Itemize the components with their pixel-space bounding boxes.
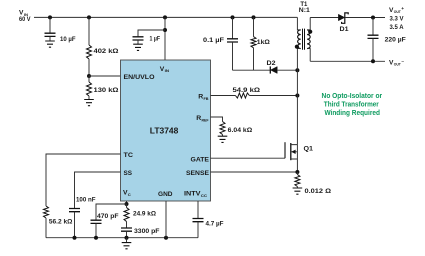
resistor 54.9k xyxy=(233,87,298,98)
svg-text:220 µF: 220 µF xyxy=(385,37,406,44)
wire switch node vertical xyxy=(296,70,298,144)
svg-text:EN/UVLO: EN/UVLO xyxy=(124,74,155,81)
svg-text:D2: D2 xyxy=(267,60,276,67)
ground below 130k xyxy=(84,100,94,106)
op-amp U1 LT3748 body xyxy=(121,60,211,201)
wire bottom rail xyxy=(46,237,198,239)
transformer T1 labels xyxy=(299,1,310,14)
svg-text:130 kΩ: 130 kΩ xyxy=(94,87,120,94)
junction 1uF tap xyxy=(163,28,167,32)
svg-text:FB: FB xyxy=(204,96,209,101)
capacitor 3300pF xyxy=(121,228,160,238)
junction switch node at D2 xyxy=(295,68,299,72)
transformer T1 secondary xyxy=(307,18,310,62)
pin VC label xyxy=(123,190,131,197)
pin Vin label xyxy=(160,66,169,73)
wire TC xyxy=(46,154,121,206)
junction output minus at C220uF xyxy=(371,59,375,63)
capacitor 4.7uF xyxy=(193,219,224,238)
wire RFB xyxy=(211,95,236,97)
junction rail 100nF xyxy=(73,236,77,240)
node Vout minus label xyxy=(389,59,404,66)
svg-text:SENSE: SENSE xyxy=(186,170,209,177)
pin INTVCC label xyxy=(184,190,207,197)
wire output minus rail xyxy=(310,60,385,62)
svg-text:1 µF: 1 µF xyxy=(150,36,161,43)
svg-text:GND: GND xyxy=(158,191,173,198)
svg-text:54.9 kΩ: 54.9 kΩ xyxy=(233,87,261,94)
capacitor 100nF xyxy=(69,197,96,238)
svg-text:TC: TC xyxy=(124,152,134,159)
svg-text:CC: CC xyxy=(201,193,207,198)
junction input rail at Vin pin xyxy=(163,15,167,19)
capacitor C 220uF xyxy=(368,18,406,62)
transformer T1 primary phase dot xyxy=(295,45,299,49)
diode D2 xyxy=(267,60,298,74)
svg-text:56.2 kΩ: 56.2 kΩ xyxy=(49,219,73,226)
ground below sense resistor xyxy=(293,188,303,194)
svg-text:+: + xyxy=(401,7,404,12)
wire INTVCC pin xyxy=(197,201,199,218)
wire input top rail xyxy=(34,16,297,18)
wire SS xyxy=(75,172,121,208)
svg-text:100 nF: 100 nF xyxy=(76,197,96,204)
svg-text:D1: D1 xyxy=(340,26,349,33)
diode D1 schottky xyxy=(338,13,348,33)
svg-text:4.7 µF: 4.7 µF xyxy=(206,221,224,228)
svg-text:C: C xyxy=(128,192,131,197)
resistor 24.9k xyxy=(124,204,157,228)
svg-text:Q1: Q1 xyxy=(304,146,314,153)
resistor 1k snubber xyxy=(251,17,271,70)
wire SENSE xyxy=(211,171,298,173)
transformer T1 secondary phase dot xyxy=(308,30,312,34)
svg-text:SS: SS xyxy=(124,170,133,177)
svg-text:No Opto-Isolator or: No Opto-Isolator or xyxy=(322,93,383,100)
capacitor 470pF xyxy=(91,204,127,238)
resistor 56.2k xyxy=(44,206,74,238)
note no opto-isolator text xyxy=(322,93,383,117)
svg-text:60 V: 60 V xyxy=(19,16,31,23)
svg-text:6.04 kΩ: 6.04 kΩ xyxy=(228,127,253,134)
junction output plus at C220uF xyxy=(371,16,375,20)
svg-text:REF: REF xyxy=(202,117,209,122)
pin RFB label xyxy=(198,94,208,101)
resistor 402k xyxy=(87,17,120,76)
svg-text:3.3 V: 3.3 V xyxy=(390,16,405,23)
svg-text:3.5 A: 3.5 A xyxy=(390,24,405,31)
junction rail 470pF xyxy=(94,236,98,240)
svg-text:OUT: OUT xyxy=(394,63,402,67)
wire D1 to Vout+ xyxy=(345,17,385,19)
junction sense node xyxy=(295,170,299,174)
svg-text:IN: IN xyxy=(165,68,170,73)
junction rail 3300pF xyxy=(125,236,129,240)
svg-text:24.9 kΩ: 24.9 kΩ xyxy=(133,211,157,218)
ground below 10uF xyxy=(45,41,55,47)
junction input rail at C-0.1uF xyxy=(231,15,235,19)
svg-text:–: – xyxy=(401,60,404,65)
resistor 6.04k xyxy=(220,122,253,137)
transformer T1 core xyxy=(303,29,305,50)
resistor 0.012 sense xyxy=(295,172,332,195)
svg-text:0.1 µF: 0.1 µF xyxy=(203,37,224,44)
junction switch node at RFB xyxy=(295,94,299,98)
ground bottom rail xyxy=(122,238,132,249)
wire VC drop xyxy=(126,201,128,204)
capacitor C 10uF xyxy=(45,17,76,42)
wire GND pin xyxy=(165,201,167,238)
svg-text:GATE: GATE xyxy=(191,157,210,164)
node Vin input label xyxy=(19,10,31,24)
svg-text:402 kΩ: 402 kΩ xyxy=(94,48,120,55)
node EN junction xyxy=(87,74,91,78)
pin RREF label xyxy=(196,115,209,122)
transistor Q1 xyxy=(285,142,313,172)
svg-text:470 pF: 470 pF xyxy=(97,213,119,220)
capacitor 0.1uF snubber xyxy=(203,17,238,70)
svg-text:0.012 Ω: 0.012 Ω xyxy=(305,188,332,195)
ground below 1uF xyxy=(133,44,143,50)
transformer T1 primary xyxy=(297,17,300,70)
ground below 6.04k xyxy=(218,136,228,142)
svg-text:1kΩ: 1kΩ xyxy=(257,39,271,46)
junction input rail at R-402k xyxy=(87,15,91,19)
svg-text:Third Transformer: Third Transformer xyxy=(324,101,379,108)
wire Vin pin drop xyxy=(164,17,166,60)
wire snubber bottom xyxy=(233,69,270,71)
wire EN/UVLO xyxy=(89,75,121,77)
wire GATE xyxy=(211,157,286,159)
resistor 130k xyxy=(87,76,120,100)
capacitor C 1uF xyxy=(133,30,166,44)
node Vout plus label xyxy=(389,7,404,31)
junction input rail at R-1k xyxy=(252,15,256,19)
svg-text:10 µF: 10 µF xyxy=(60,36,76,43)
svg-text:N:1: N:1 xyxy=(299,7,310,14)
svg-text:Winding Required: Winding Required xyxy=(324,110,380,117)
junction rail GND xyxy=(164,236,168,240)
junction VC node xyxy=(125,202,129,206)
wire RREF xyxy=(211,117,223,122)
wire secondary top to D1 xyxy=(310,17,338,19)
svg-text:3300 pF: 3300 pF xyxy=(134,228,160,235)
svg-text:LT3748: LT3748 xyxy=(150,127,179,136)
svg-text:INTV: INTV xyxy=(184,190,201,197)
junction input rail at C-10uF xyxy=(48,15,52,19)
